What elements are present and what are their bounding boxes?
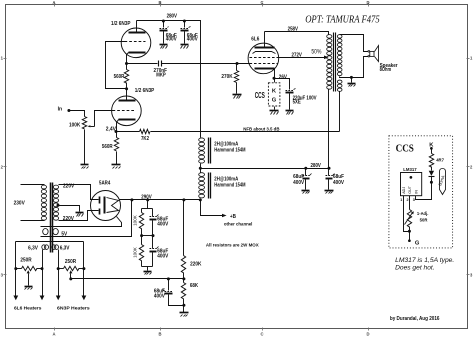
wire: OPT primary bottom to 280V node [328,90,330,169]
svg-text:400V: 400V [166,37,178,43]
ground (speaker return) [348,76,356,87]
wire: 290V B+ line from rectifier [120,195,201,201]
svg-text:270K: 270K [221,74,233,80]
transformer OPT NFB winding [337,80,342,91]
resistor 250R humdinger (6L6 heaters) [14,258,43,286]
wire: +B other channel branch [201,200,253,228]
ground (270K) [233,95,242,99]
wire: SRPP output to coupling cap [127,63,158,65]
capacitor 68uF 400V (rail, left) [160,20,178,49]
svg-text:other channel: other channel [224,221,253,227]
svg-text:IN: IN [414,190,418,194]
wire: OPT NFB winding down to NFB line [339,92,341,132]
resistor 100K (lower bleeder) [132,236,143,267]
node: V1b cathode 2,4V [106,126,118,133]
resistor 560R (SRPP) [114,64,129,89]
capacitor 270nF MKP coupling [154,61,168,79]
svg-text:D: D [366,0,369,5]
ground (divider) [180,313,189,317]
node: filter midpoint [140,234,154,237]
svg-text:1: 1 [400,198,402,202]
wire: LM317 OUT to pot [409,196,411,210]
svg-text:1/2 6N3P: 1/2 6N3P [111,21,131,27]
resistor 4R7 [429,149,444,168]
svg-text:6L6: 6L6 [251,37,259,43]
wire: choke bottom to 290V line [199,198,202,201]
speaker 8 Ohm [368,46,398,74]
resistor 270K (6L6 grid leak) [221,62,238,94]
title OPT: TAMURA F475 [305,15,380,26]
ground (HV centre tap) [76,213,84,217]
wire: LM317 IN from diode [416,183,432,200]
svg-text:3: 3 [413,198,415,202]
svg-text:5AR4: 5AR4 [99,180,110,186]
label 6L6 Heaters [14,306,42,312]
heater arrows 6N3P [56,296,87,301]
svg-text:220V: 220V [63,216,75,222]
svg-text:A: A [52,331,55,336]
capacitor 68uF 400V (lower filter) [150,236,169,267]
svg-text:D: D [366,331,369,336]
svg-text:C: C [260,331,263,336]
note: LM317 is 1,5A type. Does get hot. [395,258,454,272]
capacitor 68uF 400V (280V node, left) [293,167,311,194]
wire: HV secondary top to 5AR4 anode 1 [59,185,99,200]
wire: input to volume pot [69,111,85,117]
wire: OPT secondary to speaker [340,35,369,78]
resistor 250R humdinger (6N3P heaters) [57,259,86,279]
transformer OPT primary winding [327,35,332,90]
capacitor 68uF 400V (elevation bypass) [154,279,184,306]
svg-text:68K: 68K [190,283,199,289]
capacitor 68uF 400V (upper filter) [150,209,169,236]
svg-text:Does get hot.: Does get hot. [395,266,435,272]
wire: divider bottom to ground [182,304,185,313]
svg-text:1-Adj.: 1-Adj. [417,211,429,216]
potentiometer 1-Adj. 50R [405,210,429,228]
wire: LM317 ADJ to pot bottom [404,196,411,233]
capacitor 220uF 100V 5XE (cathode bypass) [275,79,318,115]
svg-text:+B: +B [230,214,236,220]
svg-text:7K2: 7K2 [141,136,149,142]
transformer PT HV secondary 220V-0-220V [53,184,74,222]
svg-text:400V: 400V [157,222,169,228]
svg-text:100K: 100K [132,246,137,258]
svg-text:272V: 272V [292,52,303,58]
transformer OPT core [334,33,336,92]
transformer PT primary 230V [14,185,47,221]
svg-text:6,3V: 6,3V [60,246,70,252]
tube V1b 1/2 6N3P (SRPP lower) [112,88,155,131]
wire: HV secondary bottom to 5AR4 anode 2 [59,211,99,221]
node K (CCS detail) [429,142,434,149]
tube V3 5AR4 rectifier [91,180,121,220]
CCS block (dashed) with K and G terminals [255,79,280,115]
svg-text:220V: 220V [63,184,75,190]
node G (CCS detail) [408,227,420,247]
wire: NFB line from OPT secondary [151,131,340,133]
svg-text:G: G [272,98,277,104]
svg-text:2,4V: 2,4V [106,126,117,132]
svg-text:NFB about 3.5 dB: NFB about 3.5 dB [243,126,280,132]
svg-text:1/2 6N3P: 1/2 6N3P [135,88,155,94]
ground (V1b cathode) [112,165,121,169]
svg-text:by Durandal, Aug 2016: by Durandal, Aug 2016 [390,316,440,322]
svg-text:250R: 250R [65,259,77,265]
transformer OPT secondary winding [337,35,342,76]
ground (6L6 humdinger) [25,287,33,290]
svg-text:CCS: CCS [396,144,414,155]
node: inter-choke junction [199,164,202,173]
inductor L2 2H@100mA Hammond 154M [199,173,246,199]
svg-text:400V: 400V [157,254,169,260]
credit: by Durandal, Aug 2016 [390,316,440,322]
note: all resistors 2W MOX [206,243,260,249]
svg-text:6L6 Heaters: 6L6 Heaters [14,306,42,312]
wire: pot bottom to ground [84,130,86,165]
svg-text:Hammond 154M: Hammond 154M [214,182,245,188]
svg-text:68uF: 68uF [293,174,304,180]
transformer PT 5V winding [43,229,68,238]
svg-text:6N3P Heaters: 6N3P Heaters [57,306,90,312]
heater arrows 6L6 [13,296,44,301]
wire: 6.3V heater bus connections [16,242,84,296]
svg-text:400V: 400V [333,180,345,186]
svg-text:4R7: 4R7 [436,158,444,163]
ground (filter ladder) [144,272,152,275]
current flag 60mA [437,169,446,195]
svg-text:400V: 400V [293,180,305,186]
wire: heater elevation line [69,277,183,280]
svg-text:258V: 258V [288,27,299,33]
ground (pot) [81,165,89,169]
svg-text:280V: 280V [167,14,178,20]
wire: V1a grid return to V1b plate [106,42,127,89]
svg-text:5XE: 5XE [293,99,302,105]
wire: filter bottom to ground [142,267,153,271]
resistor 7K2 (NFB) [117,129,151,142]
svg-text:68uF: 68uF [333,174,344,180]
svg-text:280V: 280V [311,163,322,169]
svg-text:100K: 100K [132,214,137,226]
node 280V label [167,14,178,20]
svg-text:220K: 220K [190,261,202,267]
svg-text:6,3V: 6,3V [28,245,38,251]
potentiometer 100K volume [69,117,95,129]
pins 1 2 3 (LM317) [400,198,414,202]
wire: 5V winding terminal 2 to B+ [41,198,134,236]
svg-text:26V: 26V [279,75,288,81]
svg-text:In: In [58,106,62,112]
svg-text:400V: 400V [187,37,199,43]
svg-text:OPT: TAMURA F475: OPT: TAMURA F475 [305,15,380,26]
svg-text:All resistors are 2W MOX: All resistors are 2W MOX [206,243,260,249]
svg-text:OUT: OUT [408,185,412,194]
svg-text:G: G [415,240,420,246]
transformer PT core [51,183,53,253]
svg-text:B: B [158,0,161,5]
svg-text:C: C [260,0,263,5]
svg-text:5V: 5V [61,232,67,238]
svg-text:400V: 400V [154,294,166,300]
svg-text:560R: 560R [114,74,125,80]
wire: 280V preamp rail and B+ feed down to choke [137,21,201,138]
node: SRPP output junction [125,62,128,65]
resistor 100K (upper bleeder) [132,209,152,236]
transformer PT 6,3V windings [28,245,70,252]
wire: coupling cap to 6L6 grid [162,63,250,65]
capacitor 68uF 400V (rail, right) [181,20,199,49]
wire: pot wiper to V1b grid [95,111,113,127]
inductor L1 2H@100mA Hammond 154M [199,138,246,164]
resistor 220K (elevation divider top) [181,198,201,278]
svg-text:560R: 560R [102,144,113,150]
node: 6L6 cathode 26V [273,75,288,81]
resistor 560R (V1b cathode) [102,132,119,165]
wire: 6L6 screen to OPT UL tap (272V, 50%) [279,49,329,59]
node: 290V junction [146,198,149,208]
svg-text:2: 2 [407,198,409,202]
capacitor 68uF 400V (280V node, right) [325,167,345,194]
svg-text:CCS: CCS [255,90,265,100]
label 6N3P Heaters [57,306,90,312]
label: NFB about 3.5 dB [243,126,280,132]
svg-text:250R: 250R [20,258,32,264]
resistor 68K (elevation divider bottom) [181,279,198,306]
svg-text:ADJ: ADJ [402,187,406,194]
tube V2 6L6 output [248,32,279,79]
svg-text:B: B [158,331,161,336]
svg-text:Hammond 154M: Hammond 154M [214,147,245,153]
wire: 280V node to choke junction [201,163,329,169]
tube V1a 1/2 6N3P (SRPP upper) [111,21,151,64]
svg-text:230V: 230V [14,201,26,207]
svg-text:MKP: MKP [156,72,166,78]
svg-text:8Ohm: 8Ohm [380,67,392,73]
svg-text:100K: 100K [69,123,81,129]
node: elevation junction [167,277,186,280]
wire: 6L6 plate to OPT primary top (258V) [265,27,329,35]
wire: HV centre tap to ground [57,204,80,212]
node: input terminal In [58,106,71,112]
wire: 5AR4 filament to 5V winding (terminal 1) [41,217,122,227]
CCS detail box (dotted) [389,136,453,248]
regulator U1 LM317 [401,167,422,196]
svg-text:LM317 is 1,5A type.: LM317 is 1,5A type. [395,258,454,264]
svg-text:50%: 50% [311,49,321,56]
svg-text:A: A [52,0,55,5]
diode (CCS) [429,167,435,184]
svg-text:50R: 50R [420,218,428,223]
node: V1b plate junction [125,87,128,90]
